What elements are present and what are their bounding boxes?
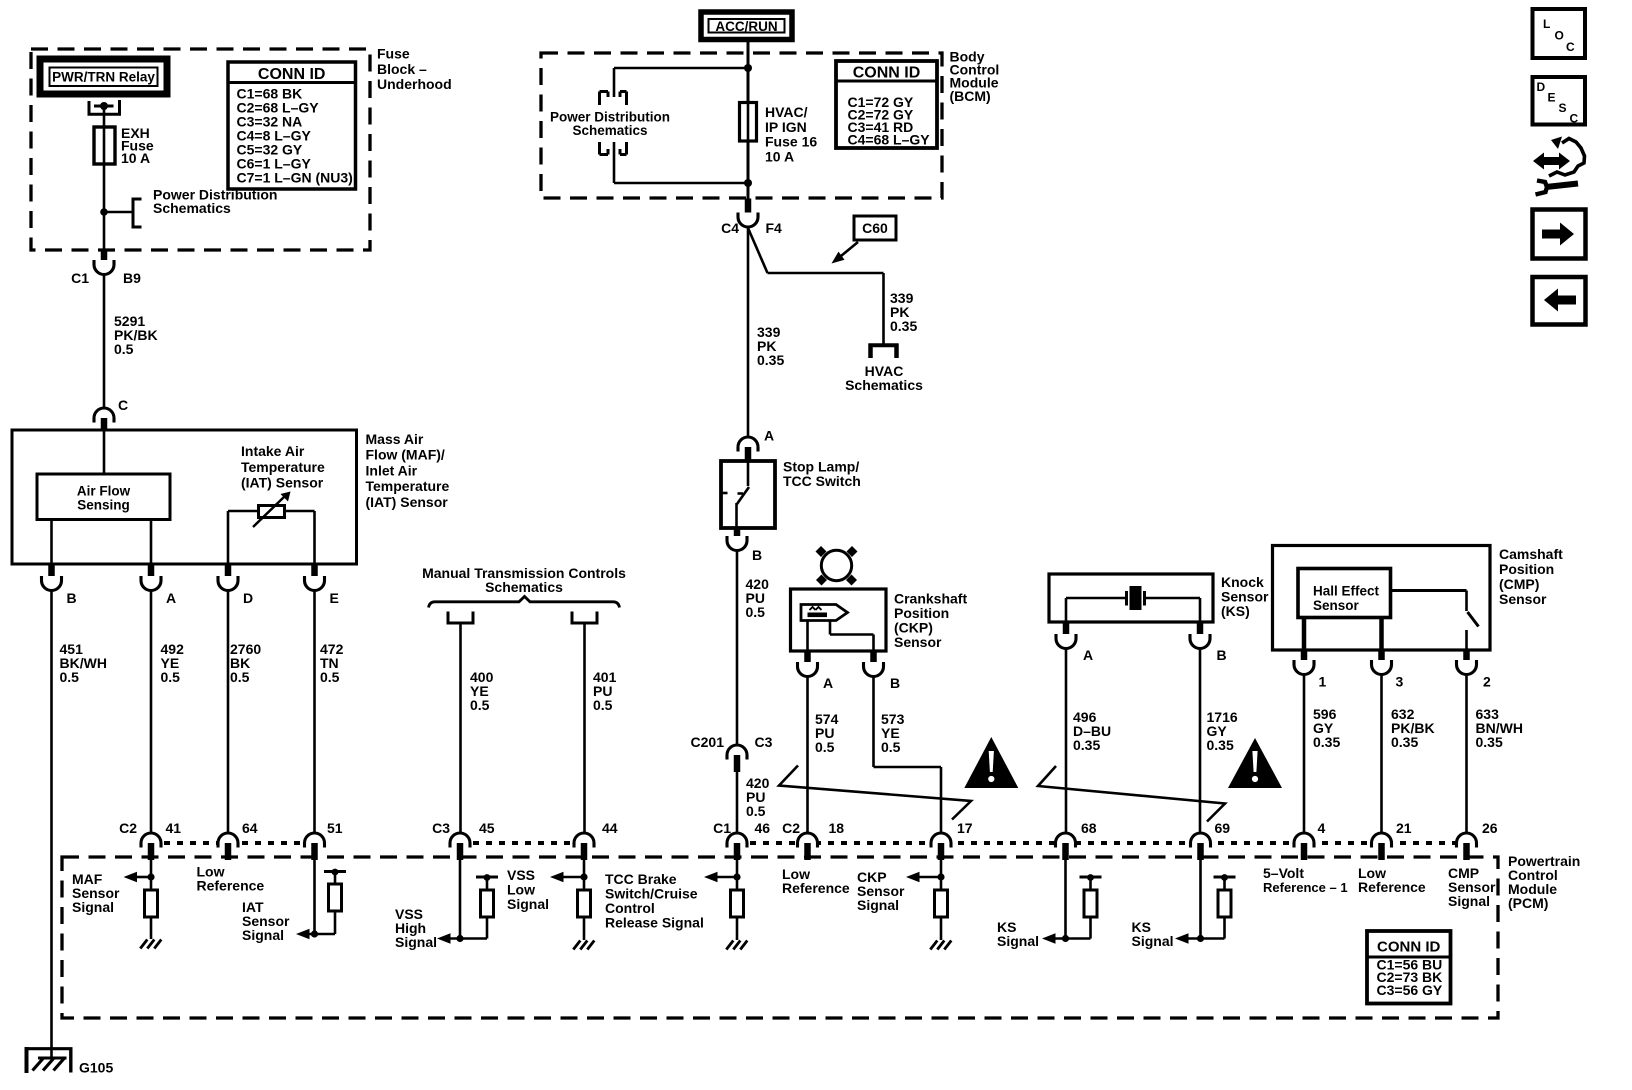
svg-text:Reference – 1: Reference – 1 xyxy=(1263,880,1348,895)
svg-text:Release Signal: Release Signal xyxy=(605,915,704,931)
svg-text:0.5: 0.5 xyxy=(161,669,181,685)
svg-text:0.35: 0.35 xyxy=(1207,737,1234,753)
svg-text:D: D xyxy=(243,590,253,606)
svg-text:17: 17 xyxy=(957,820,973,836)
svg-text:0.5: 0.5 xyxy=(114,341,134,357)
svg-text:0.5: 0.5 xyxy=(881,739,901,755)
svg-text:Signal: Signal xyxy=(242,927,284,943)
svg-text:C201: C201 xyxy=(691,734,725,750)
svg-text:C1: C1 xyxy=(71,270,89,286)
svg-text:C: C xyxy=(1566,40,1575,54)
svg-text:Air Flow: Air Flow xyxy=(77,484,131,499)
svg-text:0.35: 0.35 xyxy=(1391,734,1418,750)
svg-text:B: B xyxy=(1217,647,1227,663)
svg-text:0.35: 0.35 xyxy=(890,318,917,334)
svg-text:B9: B9 xyxy=(123,270,141,286)
svg-text:C4: C4 xyxy=(721,220,739,236)
svg-text:A: A xyxy=(1083,647,1093,663)
svg-text:Signal: Signal xyxy=(857,897,899,913)
svg-text:C2: C2 xyxy=(782,820,800,836)
svg-text:CONN ID: CONN ID xyxy=(258,66,326,83)
svg-text:18: 18 xyxy=(829,820,845,836)
svg-text:0.5: 0.5 xyxy=(470,697,490,713)
svg-text:Temperature: Temperature xyxy=(241,459,325,475)
svg-text:Signal: Signal xyxy=(395,934,437,950)
svg-text:44: 44 xyxy=(602,820,618,836)
svg-text:C2: C2 xyxy=(119,820,137,836)
svg-text:Fuse 16: Fuse 16 xyxy=(765,134,817,150)
svg-text:(IAT) Sensor: (IAT) Sensor xyxy=(366,494,449,510)
svg-text:Inlet Air: Inlet Air xyxy=(366,462,418,478)
svg-text:10 A: 10 A xyxy=(765,148,794,164)
svg-text:0.5: 0.5 xyxy=(746,803,766,819)
svg-text:Temperature: Temperature xyxy=(366,478,450,494)
svg-text:0.5: 0.5 xyxy=(815,739,835,755)
svg-text:Schematics: Schematics xyxy=(153,200,231,216)
svg-text:68: 68 xyxy=(1081,820,1097,836)
svg-text:Reference: Reference xyxy=(782,880,850,896)
svg-text:Reference: Reference xyxy=(197,878,265,894)
svg-text:Signal: Signal xyxy=(72,899,114,915)
svg-text:B: B xyxy=(752,547,762,563)
svg-text:Block –: Block – xyxy=(377,61,427,77)
svg-text:Mass Air: Mass Air xyxy=(366,431,424,447)
svg-text:Sensor: Sensor xyxy=(894,634,942,650)
svg-text:45: 45 xyxy=(479,820,495,836)
svg-text:(KS): (KS) xyxy=(1221,603,1250,619)
svg-text:C60: C60 xyxy=(862,220,888,236)
svg-text:5–Volt: 5–Volt xyxy=(1263,865,1304,881)
svg-text:C3: C3 xyxy=(755,734,773,750)
svg-text:41: 41 xyxy=(166,820,182,836)
svg-text:(CMP): (CMP) xyxy=(1499,576,1539,592)
svg-text:4: 4 xyxy=(1318,820,1326,836)
svg-text:C7=1 L–GN (NU3): C7=1 L–GN (NU3) xyxy=(237,170,353,186)
svg-text:TCC Switch: TCC Switch xyxy=(783,473,861,489)
svg-text:O: O xyxy=(1555,29,1564,43)
svg-text:0.5: 0.5 xyxy=(230,669,250,685)
svg-text:Camshaft: Camshaft xyxy=(1499,546,1563,562)
svg-text:Sensing: Sensing xyxy=(77,498,130,513)
svg-text:B: B xyxy=(890,675,900,691)
svg-text:Signal: Signal xyxy=(997,933,1039,949)
svg-text:E: E xyxy=(330,590,339,606)
svg-text:3: 3 xyxy=(1396,674,1404,690)
svg-text:CONN ID: CONN ID xyxy=(853,65,921,82)
svg-text:Underhood: Underhood xyxy=(377,76,452,92)
svg-text:0.35: 0.35 xyxy=(1073,737,1100,753)
svg-text:0.35: 0.35 xyxy=(1476,734,1503,750)
svg-text:C: C xyxy=(1570,112,1579,126)
svg-text:0.5: 0.5 xyxy=(60,669,80,685)
svg-text:HVAC/: HVAC/ xyxy=(765,104,808,120)
svg-text:Intake Air: Intake Air xyxy=(241,443,305,459)
svg-text:Fuse: Fuse xyxy=(377,46,410,62)
svg-text:26: 26 xyxy=(1482,820,1498,836)
svg-text:C4=68 L–GY: C4=68 L–GY xyxy=(848,132,931,148)
svg-text:F4: F4 xyxy=(766,220,783,236)
svg-text:Reference: Reference xyxy=(1358,879,1426,895)
svg-text:A: A xyxy=(823,675,833,691)
svg-text:(PCM): (PCM) xyxy=(1508,895,1548,911)
svg-text:Signal: Signal xyxy=(507,896,549,912)
svg-text:(BCM): (BCM) xyxy=(950,88,991,104)
svg-text:1: 1 xyxy=(1319,674,1327,690)
svg-text:Signal: Signal xyxy=(1132,933,1174,949)
svg-text:IP IGN: IP IGN xyxy=(765,119,807,135)
svg-text:21: 21 xyxy=(1396,820,1412,836)
svg-text:PWR/TRN Relay: PWR/TRN Relay xyxy=(52,70,155,85)
svg-text:E: E xyxy=(1548,91,1556,105)
svg-text:Position: Position xyxy=(1499,561,1554,577)
svg-text:L: L xyxy=(1543,17,1550,31)
svg-text:S: S xyxy=(1559,101,1567,115)
svg-text:Schematics: Schematics xyxy=(572,123,647,138)
svg-text:B: B xyxy=(67,590,77,606)
svg-text:0.35: 0.35 xyxy=(1313,734,1340,750)
svg-text:G105: G105 xyxy=(79,1060,113,1076)
svg-text:D: D xyxy=(1537,80,1546,94)
svg-text:2: 2 xyxy=(1483,674,1491,690)
svg-text:10 A: 10 A xyxy=(121,150,150,166)
svg-text:46: 46 xyxy=(755,820,771,836)
svg-text:C3=56 GY: C3=56 GY xyxy=(1377,982,1443,998)
svg-text:Sensor: Sensor xyxy=(1499,591,1547,607)
svg-text:ACC/RUN: ACC/RUN xyxy=(715,19,777,34)
svg-text:51: 51 xyxy=(327,820,343,836)
svg-text:Signal: Signal xyxy=(1448,893,1490,909)
svg-text:Flow (MAF)/: Flow (MAF)/ xyxy=(366,447,445,463)
svg-text:(IAT) Sensor: (IAT) Sensor xyxy=(241,475,324,491)
svg-text:Schematics: Schematics xyxy=(485,579,563,595)
svg-text:CONN ID: CONN ID xyxy=(1377,939,1441,956)
svg-text:C: C xyxy=(118,397,128,413)
svg-text:0.5: 0.5 xyxy=(320,669,340,685)
svg-text:0.35: 0.35 xyxy=(757,352,784,368)
svg-text:0.5: 0.5 xyxy=(746,604,766,620)
svg-text:64: 64 xyxy=(242,820,258,836)
svg-text:A: A xyxy=(166,590,176,606)
svg-text:A: A xyxy=(764,428,774,444)
svg-text:Sensor: Sensor xyxy=(1313,598,1360,613)
svg-text:0.5: 0.5 xyxy=(593,697,613,713)
svg-text:69: 69 xyxy=(1215,820,1231,836)
svg-text:Schematics: Schematics xyxy=(845,377,923,393)
svg-text:C3: C3 xyxy=(432,820,450,836)
svg-text:C1: C1 xyxy=(713,820,731,836)
svg-text:Hall Effect: Hall Effect xyxy=(1313,584,1380,599)
